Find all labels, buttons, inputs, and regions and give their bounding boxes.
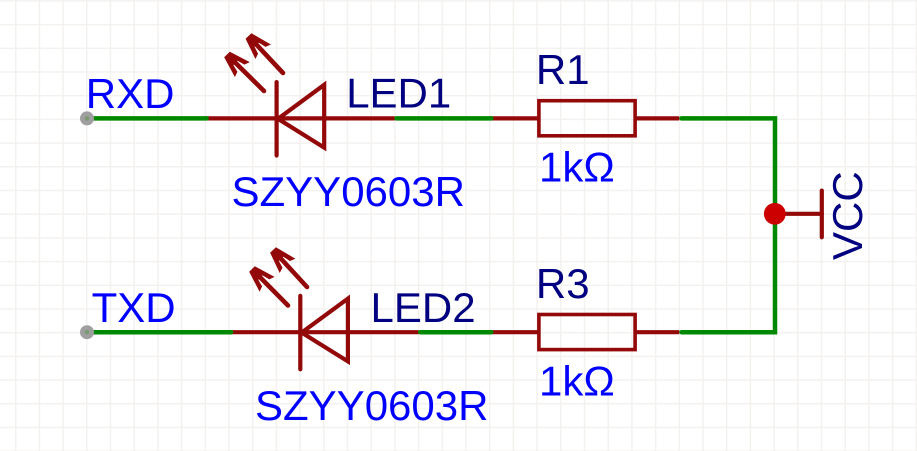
resistor R1: [490, 101, 679, 136]
LED LED2 emission arrow 1: [249, 266, 288, 305]
svg-text:SZYY0603R: SZYY0603R: [232, 168, 465, 215]
wire LED2 to R3: [420, 330, 491, 335]
resistor R1 pins: [490, 116, 679, 120]
LED LED2 cathode bar: [298, 296, 302, 369]
svg-text:TXD: TXD: [92, 284, 176, 331]
svg-text:1kΩ: 1kΩ: [539, 357, 615, 404]
LED LED2 symbol: [230, 296, 419, 369]
resistor R1 body: [539, 101, 635, 136]
LED LED1 pin wire: [205, 116, 395, 120]
svg-text:R3: R3: [536, 260, 590, 307]
VCC stem: [775, 212, 822, 216]
svg-text:R1: R1: [536, 46, 590, 93]
svg-text:LED1: LED1: [346, 70, 451, 117]
LED LED2 emission arrow 2: [270, 247, 307, 287]
svg-text:SZYY0603R: SZYY0603R: [255, 382, 488, 429]
svg-text:VCC: VCC: [824, 171, 871, 260]
wire LED1 to R1: [397, 116, 492, 121]
svg-text:LED2: LED2: [371, 284, 476, 331]
LED LED2 pin wire: [230, 330, 419, 334]
VCC bar: [820, 191, 824, 238]
junction dot: [764, 203, 786, 225]
wire TXD to LED2: [87, 330, 231, 335]
resistor R3 pins: [490, 330, 679, 334]
resistor R3: [490, 315, 679, 350]
wire R1 to VCC rail to R3: [682, 118, 776, 332]
LED LED1 emission arrow 2: [246, 33, 283, 73]
svg-text:1kΩ: 1kΩ: [539, 144, 615, 191]
wire RXD to LED1: [87, 116, 207, 121]
LED LED1 symbol: [205, 82, 395, 155]
node TXD terminal: [80, 325, 94, 339]
svg-text:RXD: RXD: [86, 70, 175, 117]
LED LED1 cathode bar: [275, 82, 279, 155]
LED LED2 triangle: [302, 299, 348, 362]
LED LED1 triangle: [278, 85, 324, 148]
LED LED1 emission arrow 1: [224, 52, 264, 91]
power symbol VCC: [775, 191, 822, 238]
resistor R3 body: [539, 315, 635, 350]
node RXD terminal: [80, 111, 94, 125]
